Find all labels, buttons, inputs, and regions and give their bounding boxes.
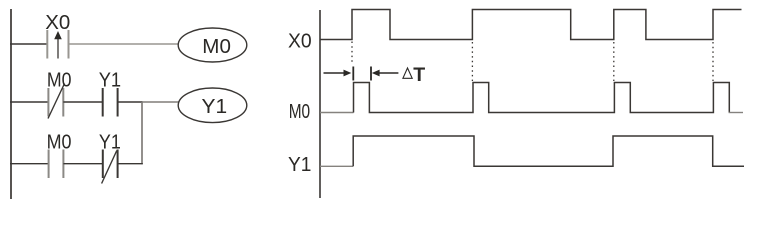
contact X0 (rising edge) left bar: [46, 30, 48, 59]
contact M0 NC (rung2) slash: [48, 84, 65, 119]
waveform Y1: [320, 165, 353, 167]
waveform M0: [320, 112, 354, 114]
waveform M0 tail: [729, 112, 743, 114]
dotted line edge1: [351, 42, 353, 65]
delta-T right arrow head: [344, 70, 352, 77]
delta-T tick right: [370, 67, 372, 81]
contact M0 (rung3) left bar: [48, 150, 50, 179]
svg-text:X0: X0: [288, 30, 312, 53]
timing diagram vertical axis: [319, 10, 321, 198]
svg-text:M0: M0: [289, 100, 310, 123]
waveform X0: [320, 10, 742, 40]
left power rail: [10, 9, 12, 199]
contact Y1 (rung2) left bar: [102, 88, 104, 117]
contact M0 NC (rung2) left bar: [47, 88, 49, 117]
dotted line edge2: [471, 42, 473, 81]
delta symbol: [403, 68, 412, 78]
wire rung2 branch node to coil: [142, 101, 179, 103]
contact X0 arrow shaft: [57, 38, 59, 59]
wire rung1 rail to contact X0: [10, 43, 48, 45]
contact Y1 (rung2) right bar: [117, 88, 119, 117]
contact Y1 NC (rung3) slash: [102, 151, 117, 184]
wire rung2 between contacts: [63, 101, 102, 103]
wire rung2 contact to branch node: [118, 101, 143, 103]
coil Y1 oval: [178, 88, 247, 123]
coil M0 oval: [178, 28, 247, 62]
contact X0 right bar: [68, 30, 70, 59]
delta-T right arrow line: [324, 72, 346, 74]
svg-text:Y1: Y1: [202, 95, 228, 118]
svg-text:M0: M0: [202, 35, 231, 58]
branch vertical wire (rung3 joins rung2): [141, 102, 143, 164]
wire rung3 between contacts: [63, 163, 102, 165]
svg-text:Y1: Y1: [288, 153, 311, 176]
contact Y1 NC (rung3) right bar: [117, 150, 119, 179]
wire rung3 rail to contact M0: [10, 163, 49, 165]
svg-text:M0: M0: [47, 131, 72, 154]
svg-text:X0: X0: [45, 11, 70, 34]
contact M0 (rung3) right bar: [62, 150, 64, 179]
wire rung2 rail to contact M0: [10, 101, 48, 103]
delta-T left arrow head: [372, 70, 380, 77]
contact Y1 NC (rung3) left bar: [102, 150, 104, 179]
delta-T tick left: [352, 67, 354, 81]
svg-text:Y1: Y1: [99, 131, 121, 154]
contact M0 NC (rung2) right bar: [62, 88, 64, 117]
dotted line edge3: [613, 42, 615, 81]
contact X0 arrow head: [54, 31, 62, 39]
wire rung3 contact to branch corner: [118, 163, 143, 165]
wire rung1 contact to coil M0: [69, 43, 179, 45]
dotted line edge4: [712, 42, 714, 81]
delta-T left arrow line: [378, 72, 398, 74]
svg-text:T: T: [413, 64, 425, 86]
svg-text:Y1: Y1: [99, 69, 121, 92]
svg-text:M0: M0: [47, 69, 72, 92]
